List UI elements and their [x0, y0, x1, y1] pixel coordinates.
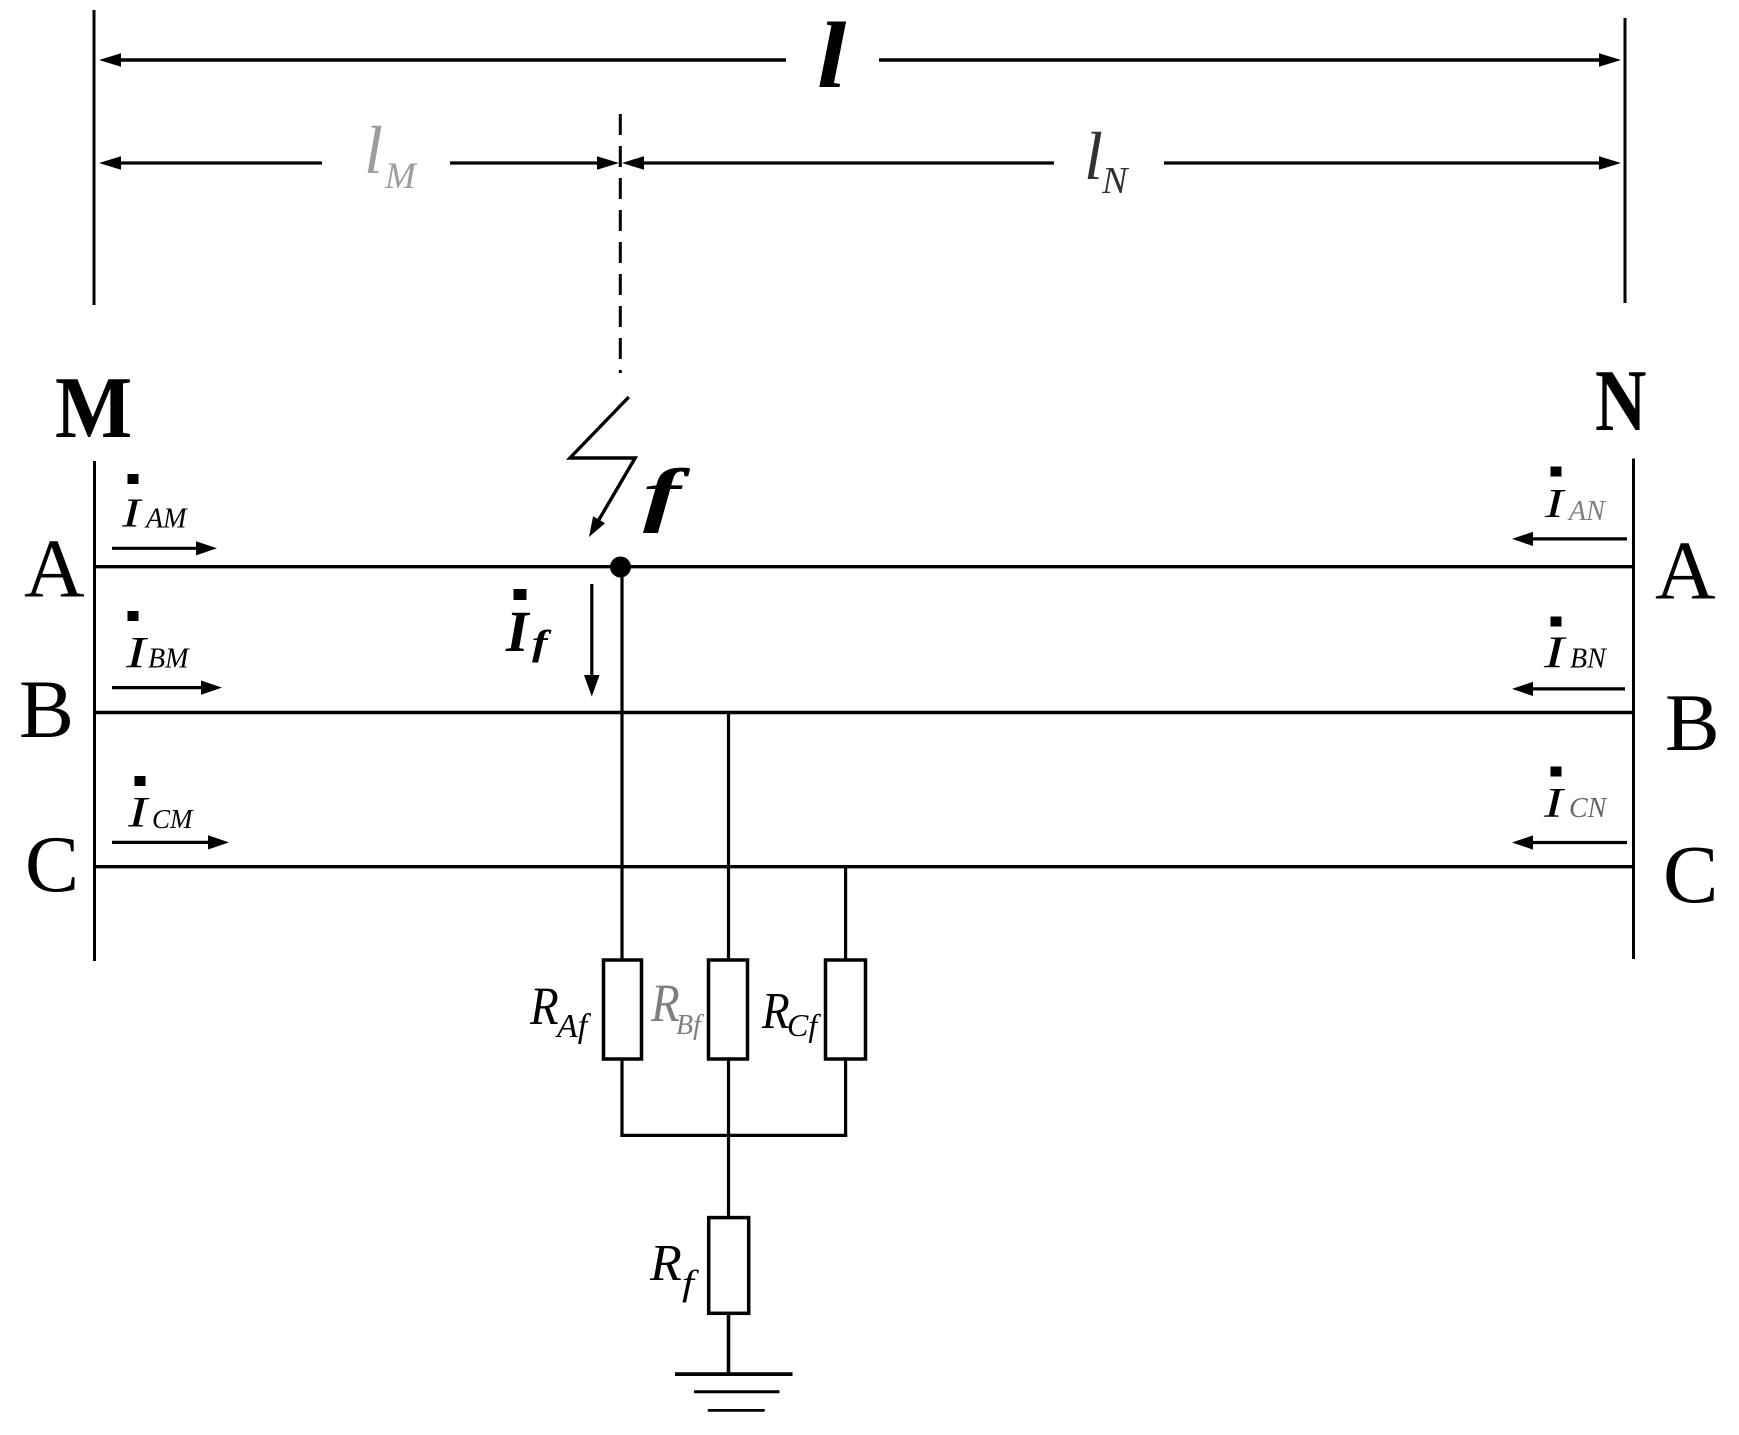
wire RBf to Rf — [727, 1059, 730, 1218]
svg-text:R: R — [649, 1235, 682, 1292]
svg-text:M: M — [55, 359, 132, 456]
svg-text:A: A — [1655, 525, 1716, 618]
phase C line — [94, 865, 1634, 868]
current IAN arrow — [1512, 532, 1627, 546]
svg-text:C: C — [1663, 828, 1718, 920]
phase A line — [94, 565, 1634, 568]
svg-text:B: B — [1665, 677, 1720, 768]
wire Rf to ground — [727, 1313, 731, 1374]
current IBN arrow — [1512, 682, 1625, 696]
svg-text:I: I — [505, 599, 531, 664]
label Rf — [649, 1235, 699, 1303]
current ICM arrow — [112, 835, 229, 849]
current ICM label — [127, 776, 194, 837]
current ICN label — [1543, 767, 1608, 827]
svg-text:I: I — [1543, 627, 1567, 678]
wire RCf to junction bar — [844, 1059, 847, 1137]
wire RAf to junction bar — [620, 1059, 623, 1137]
left dimension extension tick — [93, 10, 96, 305]
svg-text:M: M — [384, 156, 418, 197]
current If arrow — [584, 584, 600, 697]
svg-text:l: l — [364, 112, 383, 188]
dimension line lN — [622, 156, 1621, 170]
current IAM label — [121, 474, 188, 536]
svg-text:N: N — [1595, 353, 1646, 450]
current IBM label — [125, 611, 190, 677]
fault node on phase A — [610, 557, 631, 578]
current IAM arrow — [112, 541, 217, 555]
lightning bolt arrow — [570, 397, 635, 537]
svg-text:AN: AN — [1567, 496, 1606, 527]
label RBf — [650, 973, 704, 1041]
svg-text:CM: CM — [152, 804, 194, 834]
svg-text:I: I — [125, 628, 149, 677]
svg-text:I: I — [127, 789, 150, 837]
svg-text:BN: BN — [1570, 644, 1607, 675]
svg-text:B: B — [19, 663, 74, 755]
svg-text:N: N — [1101, 160, 1130, 202]
phase B line — [94, 711, 1634, 714]
current ICN arrow — [1512, 835, 1627, 849]
current If label — [505, 589, 552, 664]
svg-text:AM: AM — [144, 504, 188, 535]
svg-text:Af: Af — [555, 1008, 592, 1045]
label lN — [1084, 118, 1130, 202]
resistor Rf — [709, 1218, 749, 1314]
svg-text:l: l — [817, 3, 847, 108]
current IBM arrow — [112, 681, 222, 695]
svg-text:I: I — [1544, 481, 1567, 526]
svg-text:R: R — [761, 982, 790, 1040]
svg-text:A: A — [24, 523, 85, 616]
svg-text:CN: CN — [1569, 793, 1608, 824]
resistor RBf — [709, 960, 748, 1059]
svg-text:l: l — [1084, 118, 1103, 194]
resistor RCf — [826, 960, 866, 1059]
fault branch wire from node A down — [620, 567, 623, 962]
svg-text:Cf: Cf — [787, 1007, 821, 1043]
dimension line l — [99, 53, 1621, 67]
label RAf — [529, 976, 592, 1045]
fault locus dashed line — [619, 114, 622, 373]
current IBN label — [1543, 617, 1607, 678]
dimension line lM — [99, 156, 619, 170]
svg-text:Bf: Bf — [676, 1010, 704, 1041]
label lM — [364, 112, 418, 197]
svg-text:I: I — [121, 490, 144, 535]
bus N — [1632, 459, 1635, 960]
svg-text:I: I — [1543, 780, 1566, 826]
label RCf — [761, 982, 821, 1043]
svg-text:BM: BM — [148, 644, 190, 675]
ground symbol — [675, 1374, 793, 1410]
junction bar — [620, 1134, 847, 1137]
current IAN label — [1544, 467, 1606, 528]
svg-text:C: C — [25, 819, 79, 909]
right dimension extension tick — [1624, 18, 1627, 303]
resistor RAf — [604, 960, 642, 1059]
svg-text:R: R — [529, 976, 559, 1036]
fault branch wire from phase C down — [844, 867, 847, 962]
fault branch wire from phase B down — [727, 713, 730, 962]
bus M — [93, 461, 96, 961]
